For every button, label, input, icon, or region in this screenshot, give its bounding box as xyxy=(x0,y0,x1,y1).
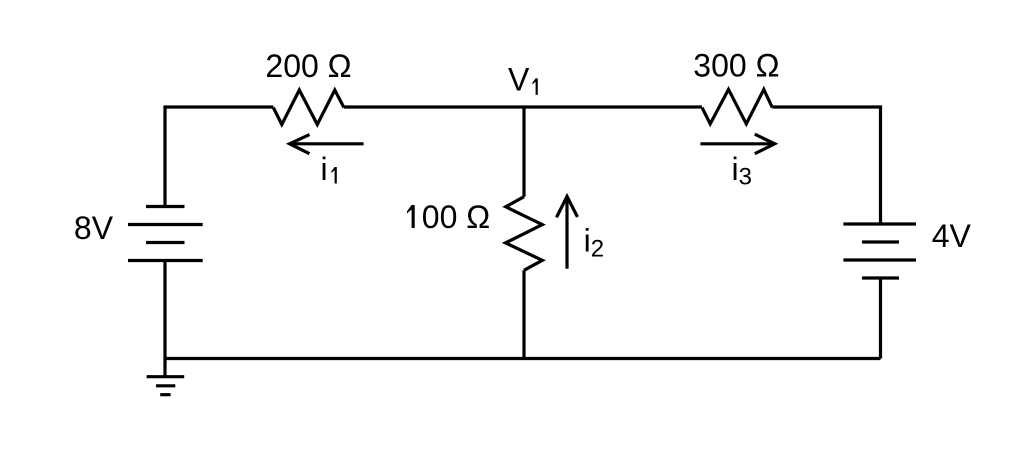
svg-text:300 Ω: 300 Ω xyxy=(693,48,779,84)
svg-text:00 Ω: 00 Ω xyxy=(422,199,490,235)
svg-text:200 Ω: 200 Ω xyxy=(265,48,351,84)
svg-text:4V: 4V xyxy=(932,218,972,254)
svg-text:8V: 8V xyxy=(74,210,114,246)
svg-text:V: V xyxy=(508,62,530,98)
svg-text:i: i xyxy=(321,151,328,187)
svg-text:i3: i3 xyxy=(732,151,752,190)
svg-text:i2: i2 xyxy=(584,222,604,262)
